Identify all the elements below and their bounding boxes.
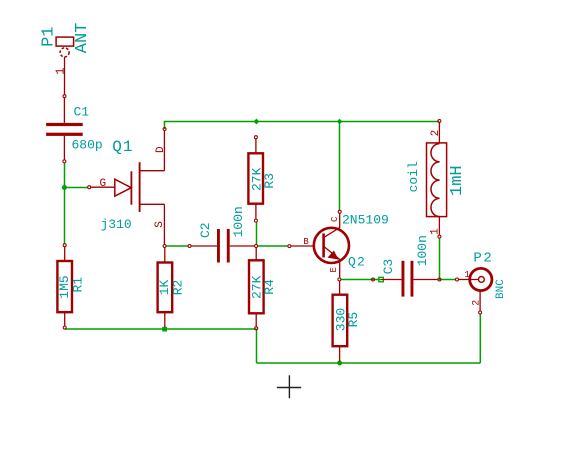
svg-text:C2: C2 [198, 222, 213, 238]
svg-text:Q2: Q2 [348, 254, 366, 269]
svg-text:D: D [155, 146, 167, 153]
svg-text:1mH: 1mH [448, 165, 467, 196]
svg-text:C1: C1 [74, 105, 90, 120]
svg-text:1: 1 [53, 68, 67, 75]
svg-text:B: B [303, 237, 309, 247]
svg-text:S: S [154, 221, 166, 228]
svg-text:680p: 680p [72, 138, 103, 153]
svg-text:1: 1 [464, 270, 469, 280]
svg-text:1: 1 [430, 228, 442, 235]
svg-text:100n: 100n [231, 206, 246, 237]
svg-text:P1: P1 [39, 26, 58, 46]
svg-text:R2: R2 [170, 280, 185, 296]
svg-text:BNC: BNC [495, 279, 507, 299]
svg-text:E: E [329, 267, 339, 272]
svg-text:ANT: ANT [73, 23, 92, 54]
svg-text:2: 2 [472, 300, 483, 306]
svg-text:C: C [330, 216, 340, 222]
svg-text:R3: R3 [262, 173, 277, 189]
svg-text:G: G [100, 178, 107, 190]
svg-text:R1: R1 [70, 277, 85, 293]
svg-text:2N5109: 2N5109 [342, 213, 389, 228]
svg-text:R5: R5 [346, 312, 361, 328]
svg-text:P2: P2 [473, 251, 493, 267]
svg-text:j310: j310 [101, 217, 132, 232]
svg-text:coil: coil [406, 161, 421, 192]
svg-text:R4: R4 [262, 279, 277, 295]
svg-text:Q1: Q1 [112, 138, 133, 156]
svg-text:2: 2 [430, 130, 442, 137]
svg-text:C3: C3 [381, 259, 396, 275]
svg-text:100n: 100n [415, 235, 430, 266]
